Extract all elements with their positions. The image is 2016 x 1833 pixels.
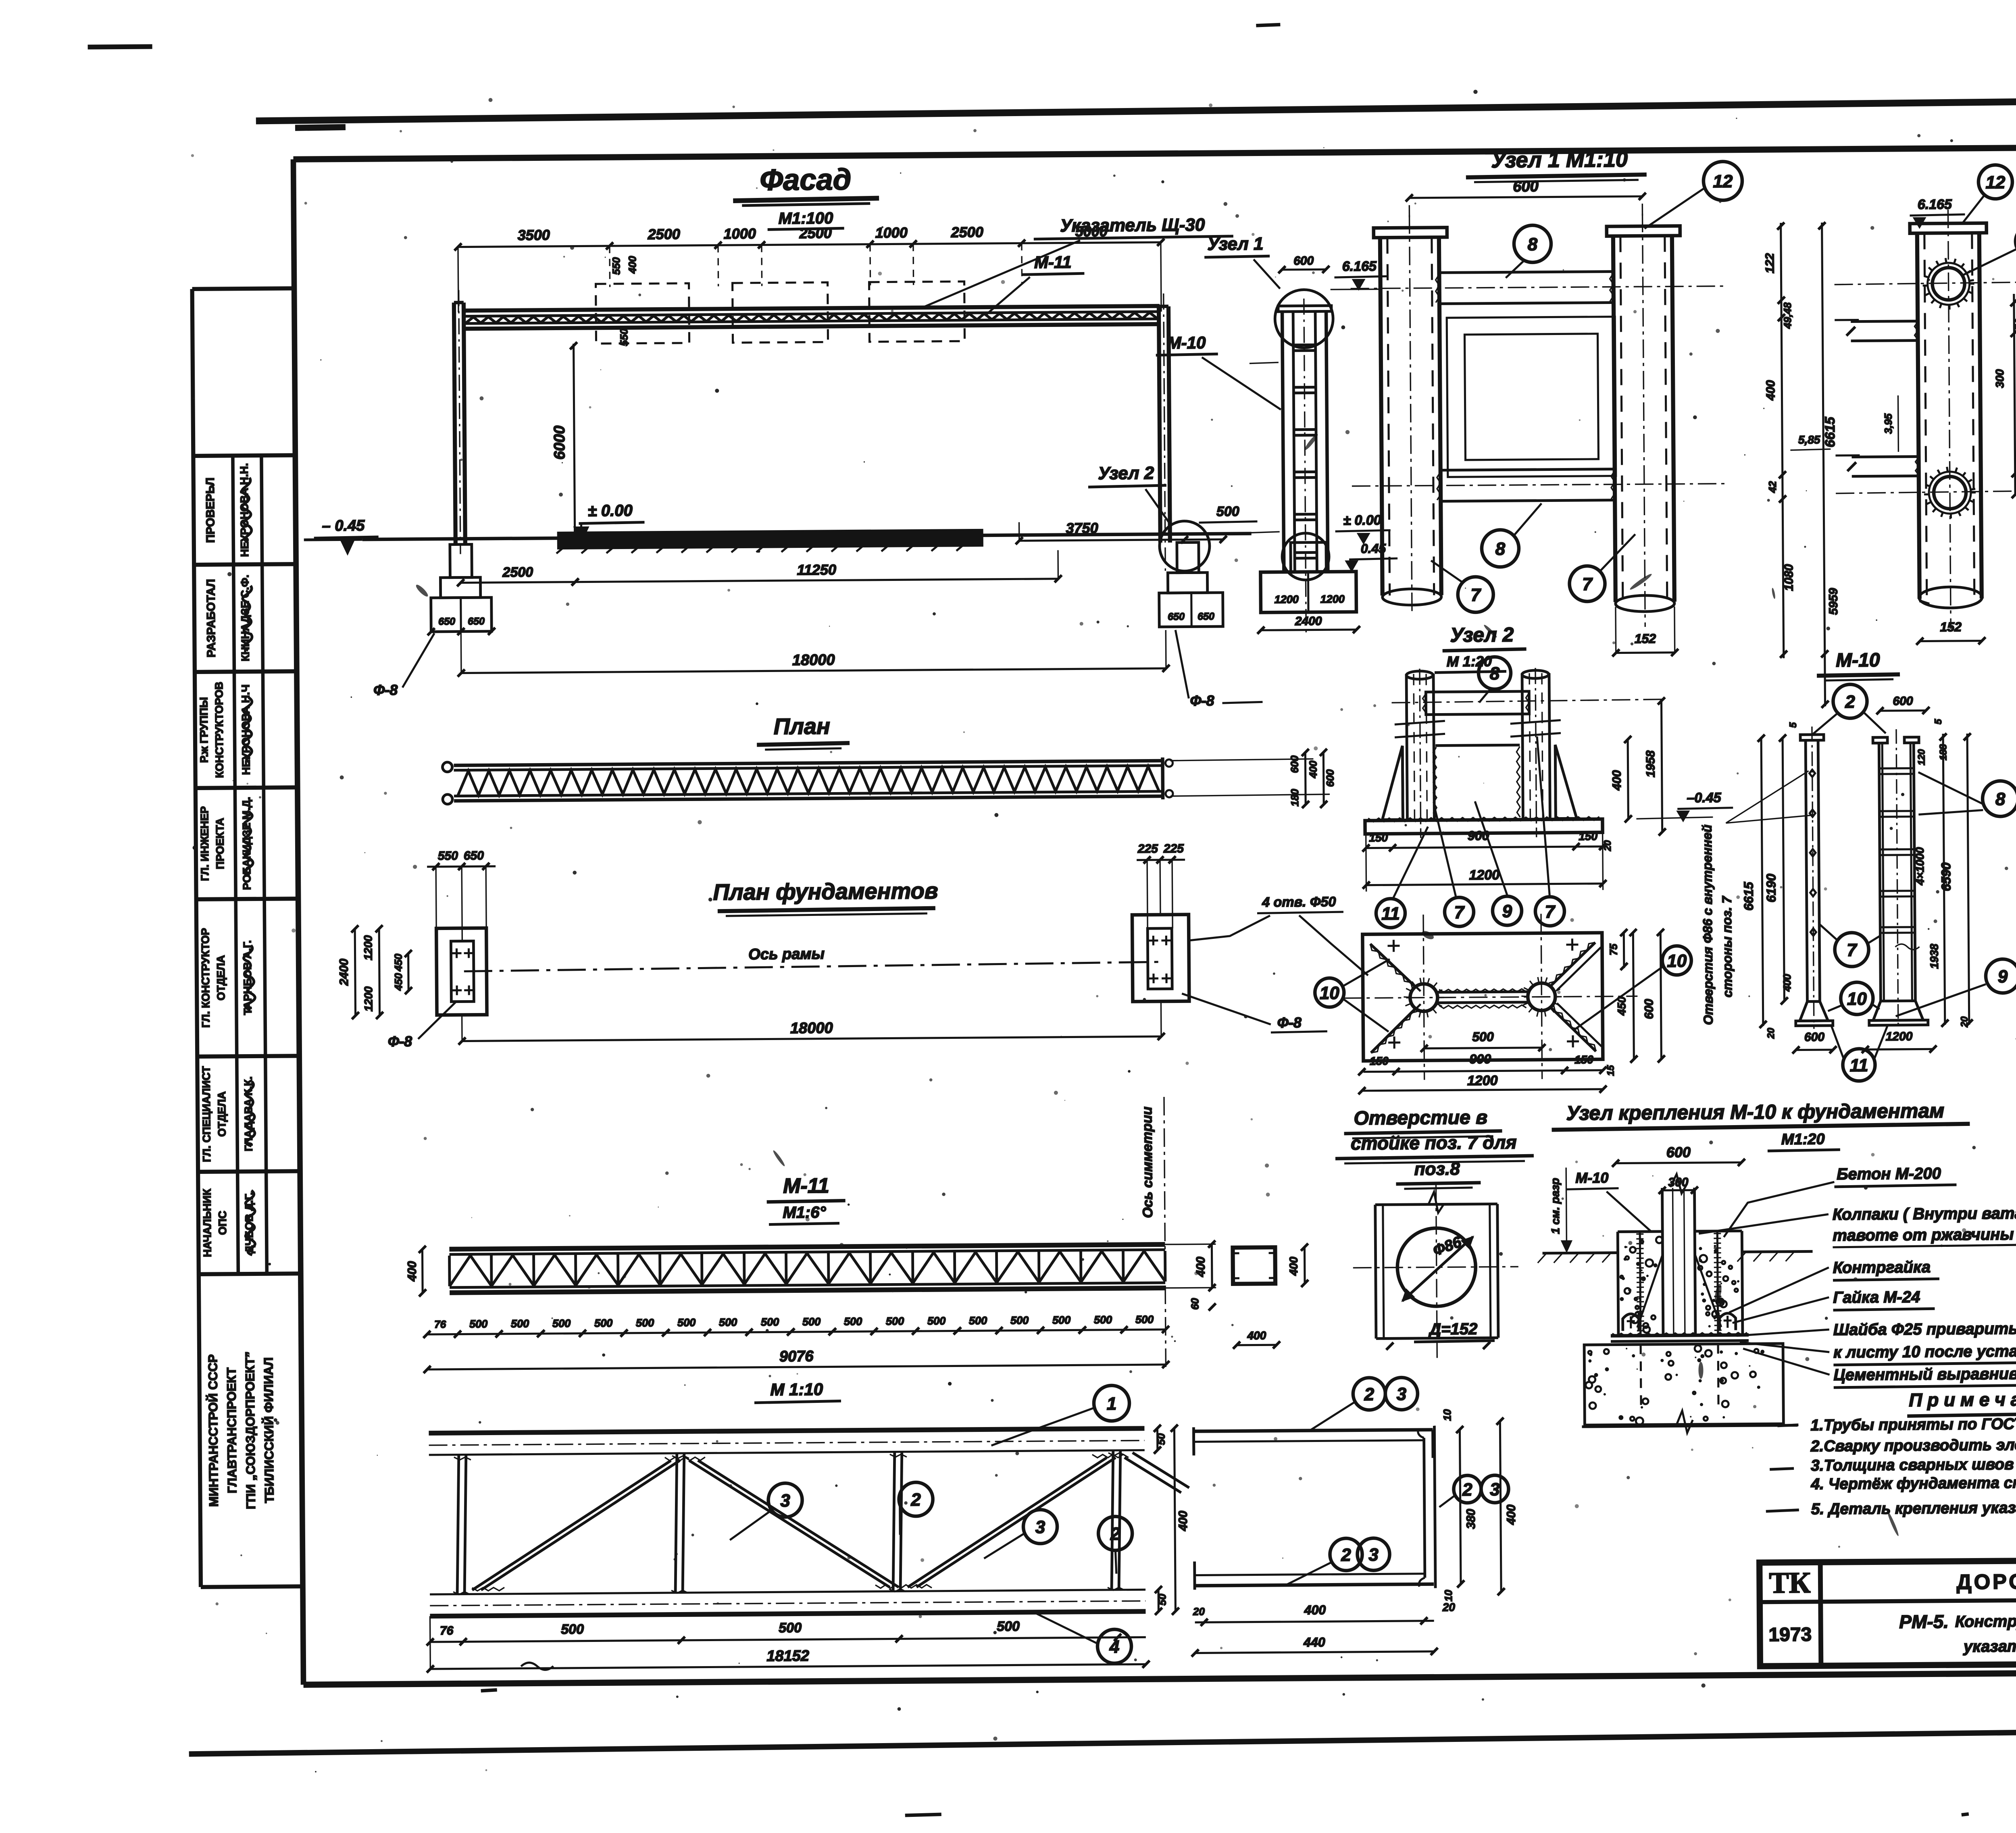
svg-text:10: 10 xyxy=(1847,989,1867,1009)
svg-text:Колпаки ( Внутри вата в: Колпаки ( Внутри вата в xyxy=(1833,1205,2016,1223)
svg-text:3: 3 xyxy=(1396,1384,1406,1404)
svg-text:400: 400 xyxy=(1505,1504,1518,1525)
svg-text:– 0.45: – 0.45 xyxy=(322,517,365,535)
svg-text:2400: 2400 xyxy=(1295,614,1322,628)
svg-text:500: 500 xyxy=(969,1315,987,1327)
svg-text:500: 500 xyxy=(594,1317,612,1329)
svg-text:4×1000: 4×1000 xyxy=(1914,847,1926,886)
svg-text:ГЛ. ИНЖЕНЕР: ГЛ. ИНЖЕНЕР xyxy=(198,806,211,881)
svg-text:1080: 1080 xyxy=(1782,564,1795,591)
svg-text:650: 650 xyxy=(1168,611,1185,622)
svg-text:120: 120 xyxy=(1916,749,1927,766)
svg-text:20: 20 xyxy=(1959,1016,1970,1028)
svg-text:2: 2 xyxy=(1364,1385,1374,1404)
svg-text:Узел 2: Узел 2 xyxy=(1450,623,1514,646)
svg-text:РМ-5.: РМ-5. xyxy=(1899,1611,1949,1632)
svg-text:8: 8 xyxy=(1528,235,1538,254)
svg-text:225: 225 xyxy=(1163,842,1185,855)
svg-text:2400: 2400 xyxy=(337,959,351,986)
svg-text:0.45: 0.45 xyxy=(1361,541,1387,556)
svg-text:1973: 1973 xyxy=(1768,1624,1812,1646)
svg-text:500: 500 xyxy=(1010,1314,1029,1326)
svg-text:М1:6°: М1:6° xyxy=(783,1204,826,1222)
svg-text:600: 600 xyxy=(1324,769,1336,787)
svg-text:7: 7 xyxy=(1470,585,1481,605)
svg-text:600: 600 xyxy=(1288,755,1300,773)
svg-text:380: 380 xyxy=(1464,1509,1478,1529)
svg-text:150: 150 xyxy=(1370,1055,1389,1067)
svg-text:Ось симметрии: Ось симметрии xyxy=(1139,1107,1156,1218)
svg-text:Ф-8: Ф-8 xyxy=(388,1033,412,1049)
svg-text:500: 500 xyxy=(886,1315,904,1327)
svg-text:5,85: 5,85 xyxy=(1798,433,1820,446)
svg-text:450: 450 xyxy=(392,973,404,991)
svg-text:ГЛ. СПЕЦИАЛИСТ: ГЛ. СПЕЦИАЛИСТ xyxy=(200,1066,213,1162)
svg-text:Цементный выравнивающий слой: Цементный выравнивающий слой xyxy=(1833,1364,2016,1384)
svg-text:180: 180 xyxy=(1289,789,1301,807)
svg-text:М-10: М-10 xyxy=(1167,333,1206,352)
svg-text:3: 3 xyxy=(1368,1545,1379,1565)
svg-text:20: 20 xyxy=(1193,1605,1205,1617)
svg-text:152: 152 xyxy=(1635,631,1656,646)
svg-text:500: 500 xyxy=(997,1619,1020,1634)
svg-text:ПРОЕКТА: ПРОЕКТА xyxy=(214,818,226,870)
svg-text:400: 400 xyxy=(1610,770,1624,791)
svg-text:ОТДЕЛА: ОТДЕЛА xyxy=(216,1091,228,1137)
svg-text:500: 500 xyxy=(677,1317,696,1329)
svg-text:60: 60 xyxy=(1189,1298,1201,1310)
svg-text:400: 400 xyxy=(1177,1511,1190,1531)
svg-text:Фасад: Фасад xyxy=(760,162,852,197)
svg-text:225: 225 xyxy=(1137,842,1159,855)
svg-text:ГЛ. КОНСТРУКТОР: ГЛ. КОНСТРУКТОР xyxy=(199,928,212,1028)
svg-text:8: 8 xyxy=(1490,664,1500,683)
svg-text:5: 5 xyxy=(1933,719,1944,724)
svg-text:500: 500 xyxy=(719,1316,737,1328)
svg-text:2: 2 xyxy=(1110,1524,1120,1544)
svg-text:650: 650 xyxy=(1198,611,1214,622)
svg-text:М-11: М-11 xyxy=(783,1174,829,1198)
svg-text:М1:20: М1:20 xyxy=(1781,1131,1825,1148)
svg-text:7: 7 xyxy=(1582,574,1593,594)
svg-text:ТБИЛИССКИЙ ФИЛИАЛ: ТБИЛИССКИЙ ФИЛИАЛ xyxy=(261,1357,276,1503)
svg-text:600: 600 xyxy=(1293,254,1314,267)
svg-text:20: 20 xyxy=(1766,1028,1776,1039)
svg-text:Р.ж ГРУППЫ: Р.ж ГРУППЫ xyxy=(198,697,210,763)
svg-text:ГПИ „СОЮЗДОРПРОЕКТ”: ГПИ „СОЮЗДОРПРОЕКТ” xyxy=(243,1351,258,1509)
svg-text:1200: 1200 xyxy=(1886,1030,1913,1043)
svg-text:Шайба Ф25 приварить: Шайба Ф25 приварить xyxy=(1833,1320,2016,1339)
svg-text:6.165: 6.165 xyxy=(1342,258,1377,274)
svg-text:18000: 18000 xyxy=(790,1019,833,1037)
svg-text:М-10: М-10 xyxy=(1836,649,1880,671)
svg-text:8: 8 xyxy=(1495,539,1506,559)
svg-text:400: 400 xyxy=(1287,1257,1300,1276)
svg-text:Гайка М-24: Гайка М-24 xyxy=(1833,1288,1920,1307)
svg-text:Ф-8: Ф-8 xyxy=(373,682,398,698)
svg-text:500: 500 xyxy=(636,1317,654,1329)
svg-text:Узел 2: Узел 2 xyxy=(1098,463,1154,483)
svg-text:2500: 2500 xyxy=(799,225,832,241)
svg-text:План: План xyxy=(774,713,831,739)
svg-text:500: 500 xyxy=(927,1315,946,1327)
svg-text:18152: 18152 xyxy=(766,1648,809,1665)
svg-text:11250: 11250 xyxy=(797,561,836,578)
svg-text:1: 1 xyxy=(1107,1394,1117,1414)
svg-text:76: 76 xyxy=(434,1318,446,1330)
svg-text:Узел 1 М1:10: Узел 1 М1:10 xyxy=(1491,147,1628,172)
svg-text:10: 10 xyxy=(1320,983,1340,1003)
svg-text:550: 550 xyxy=(618,329,630,346)
svg-text:П р и м е ч а н и я -: П р и м е ч а н и я - xyxy=(1909,1388,2016,1411)
svg-text:7: 7 xyxy=(1545,902,1556,922)
svg-text:500: 500 xyxy=(1216,504,1239,519)
svg-text:1200: 1200 xyxy=(1320,593,1345,605)
svg-text:400: 400 xyxy=(1304,1602,1326,1617)
svg-text:стойке поз. 7 для: стойке поз. 7 для xyxy=(1351,1132,1517,1154)
svg-text:2: 2 xyxy=(1462,1480,1472,1500)
svg-text:400: 400 xyxy=(1781,974,1793,992)
svg-text:400: 400 xyxy=(406,1261,419,1282)
svg-text:–0.45: –0.45 xyxy=(1687,790,1721,806)
svg-text:Отверстия Ф86 с внутренней: Отверстия Ф86 с внутренней xyxy=(1700,824,1716,1025)
svg-text:1000: 1000 xyxy=(875,224,908,241)
svg-text:500: 500 xyxy=(844,1315,862,1327)
svg-text:1200: 1200 xyxy=(362,935,374,960)
svg-text:3.Толщина сварных швов прин: 3.Толщина сварных швов принята hш -5мм xyxy=(1811,1455,2016,1475)
svg-text:5. Деталь крепления указател: 5. Деталь крепления указателей к М-11 см… xyxy=(1811,1498,2016,1518)
svg-text:5959: 5959 xyxy=(1827,588,1840,615)
svg-text:400: 400 xyxy=(1247,1329,1266,1342)
svg-text:4 отв. Ф50: 4 отв. Ф50 xyxy=(1262,894,1336,910)
svg-text:400: 400 xyxy=(1307,760,1319,778)
svg-text:500: 500 xyxy=(469,1318,487,1330)
svg-text:1.Трубы приняты по ГОСТ 87: 1.Трубы приняты по ГОСТ 8732 -70 . xyxy=(1810,1415,2016,1434)
svg-text:500: 500 xyxy=(561,1622,584,1637)
svg-text:1958: 1958 xyxy=(1644,750,1657,777)
svg-text:3: 3 xyxy=(1035,1517,1045,1537)
svg-text:Конструкция рамы для нав: Конструкция рамы для навески xyxy=(1955,1611,2016,1631)
svg-text:188: 188 xyxy=(1938,744,1949,760)
svg-text:6.165: 6.165 xyxy=(1918,197,1952,212)
svg-text:9076: 9076 xyxy=(779,1348,814,1365)
svg-text:20: 20 xyxy=(1442,1601,1456,1613)
svg-text:150: 150 xyxy=(1579,830,1597,843)
svg-text:Ось рамы: Ось рамы xyxy=(748,946,825,963)
svg-text:3500: 3500 xyxy=(518,227,550,243)
svg-text:КОНСТРУКТОРОВ: КОНСТРУКТОРОВ xyxy=(213,682,226,778)
svg-text:500: 500 xyxy=(761,1316,779,1328)
svg-text:М-10: М-10 xyxy=(1575,1169,1608,1186)
svg-text:ДОРОЖНЫЕ ЗНАКИ: ДОРОЖНЫЕ ЗНАКИ xyxy=(1956,1569,2016,1594)
svg-text:ОПС: ОПС xyxy=(217,1211,229,1235)
svg-text:к листу 10 после установки М-1: к листу 10 после установки М-10 xyxy=(1833,1342,2016,1361)
svg-text:600: 600 xyxy=(1893,695,1913,708)
svg-text:Узел крепления М-10 к фунда: Узел крепления М-10 к фундаментам xyxy=(1566,1099,1944,1124)
svg-text:6590: 6590 xyxy=(1939,862,1953,891)
svg-text:5: 5 xyxy=(1788,722,1799,728)
svg-text:500: 500 xyxy=(1094,1314,1112,1326)
svg-text:152: 152 xyxy=(1940,620,1962,634)
svg-text:1200: 1200 xyxy=(362,986,375,1011)
svg-text:18000: 18000 xyxy=(792,651,835,669)
svg-text:15: 15 xyxy=(1605,1065,1616,1076)
svg-text:6615: 6615 xyxy=(1822,416,1838,447)
svg-text:± 0.00: ± 0.00 xyxy=(1343,512,1381,528)
svg-text:2500: 2500 xyxy=(648,226,680,243)
svg-text:2: 2 xyxy=(1845,692,1855,712)
svg-text:650: 650 xyxy=(438,616,455,627)
svg-text:6615: 6615 xyxy=(1741,881,1756,911)
svg-text:50: 50 xyxy=(2013,318,2016,331)
svg-text:450: 450 xyxy=(1615,997,1628,1016)
svg-text:2: 2 xyxy=(1341,1545,1351,1565)
svg-text:6190: 6190 xyxy=(1764,874,1778,903)
svg-text:8: 8 xyxy=(1995,789,2006,809)
svg-text:550: 550 xyxy=(438,849,458,863)
svg-text:1000: 1000 xyxy=(724,225,756,242)
svg-text:600: 600 xyxy=(1804,1030,1825,1044)
svg-text:Контргайка: Контргайка xyxy=(1833,1258,1931,1277)
svg-text:тавоте от ржавчины ): тавоте от ржавчины ) xyxy=(1833,1225,2016,1244)
svg-text:49,48: 49,48 xyxy=(1781,302,1793,329)
svg-text:2500: 2500 xyxy=(951,224,983,241)
svg-text:1200: 1200 xyxy=(1275,593,1299,605)
svg-text:11: 11 xyxy=(1849,1055,1868,1075)
svg-text:Бетон М-200: Бетон М-200 xyxy=(1837,1165,1941,1183)
svg-text:12: 12 xyxy=(1713,172,1733,191)
svg-text:650: 650 xyxy=(464,849,484,862)
svg-text:9: 9 xyxy=(1502,901,1512,921)
svg-text:МИНТРАНССТРОЙ СССР: МИНТРАНССТРОЙ СССР xyxy=(205,1354,221,1506)
svg-text:М 1:10: М 1:10 xyxy=(770,1380,823,1399)
svg-text:М-11: М-11 xyxy=(1034,252,1072,272)
svg-text:550: 550 xyxy=(610,257,622,275)
svg-text:5000: 5000 xyxy=(1075,223,1108,240)
svg-text:2.Сварку производить электро: 2.Сварку производить электродами Э-42 ГО… xyxy=(1810,1435,2016,1455)
svg-text:2: 2 xyxy=(910,1490,921,1510)
svg-text:400: 400 xyxy=(1764,380,1777,401)
svg-text:42: 42 xyxy=(1766,481,1779,493)
svg-text:300: 300 xyxy=(1993,369,2006,388)
svg-text:2500: 2500 xyxy=(502,564,533,580)
svg-text:4. Чертёж фундамента см. лис: 4. Чертёж фундамента см. лист № 71 xyxy=(1810,1473,2016,1493)
svg-text:600: 600 xyxy=(1513,178,1539,195)
svg-text:7: 7 xyxy=(1847,940,1858,960)
svg-text:75: 75 xyxy=(1607,943,1619,955)
svg-text:500: 500 xyxy=(802,1316,821,1328)
svg-text:ПРОВЕРЬЛ: ПРОВЕРЬЛ xyxy=(204,478,217,543)
svg-text:ОТДЕЛА: ОТДЕЛА xyxy=(215,955,227,1001)
svg-text:1200: 1200 xyxy=(1469,867,1500,883)
svg-text:650: 650 xyxy=(468,616,485,627)
svg-text:ГЛАВТРАНСПРОЕКТ: ГЛАВТРАНСПРОЕКТ xyxy=(224,1367,239,1493)
svg-text:РАЗРАБОТАЛ: РАЗРАБОТАЛ xyxy=(204,579,218,657)
svg-text:500: 500 xyxy=(511,1317,529,1329)
svg-text:1 см. разр: 1 см. разр xyxy=(1549,1178,1562,1234)
svg-text:76: 76 xyxy=(440,1624,454,1637)
svg-text:10: 10 xyxy=(1442,1590,1454,1602)
svg-text:стороны поз. 7: стороны поз. 7 xyxy=(1720,895,1735,997)
svg-text:1938: 1938 xyxy=(1928,944,1940,969)
svg-text:122: 122 xyxy=(1763,253,1776,274)
svg-text:Ф-8: Ф-8 xyxy=(1190,692,1214,709)
svg-text:Узел 1: Узел 1 xyxy=(1207,234,1263,254)
svg-text:3,95: 3,95 xyxy=(1882,413,1894,434)
svg-text:150: 150 xyxy=(1369,831,1388,844)
svg-text:500: 500 xyxy=(779,1620,802,1635)
svg-text:поз.8: поз.8 xyxy=(1414,1159,1460,1179)
svg-text:3: 3 xyxy=(780,1491,790,1511)
svg-text:11: 11 xyxy=(1381,904,1400,924)
svg-text:Д=152: Д=152 xyxy=(1428,1320,1477,1338)
svg-text:Отверстие в: Отверстие в xyxy=(1354,1107,1487,1129)
svg-text:500: 500 xyxy=(552,1317,571,1329)
svg-text:50: 50 xyxy=(1155,1433,1167,1445)
svg-text:450: 450 xyxy=(392,953,404,972)
svg-text:10: 10 xyxy=(1667,951,1687,971)
svg-text:± 0.00: ± 0.00 xyxy=(588,502,633,520)
svg-text:500: 500 xyxy=(1472,1030,1494,1044)
svg-text:Ф-8: Ф-8 xyxy=(1277,1014,1302,1031)
svg-text:3: 3 xyxy=(1490,1479,1500,1499)
svg-text:указательных знаков .: указательных знаков . xyxy=(1963,1637,2016,1656)
svg-text:9: 9 xyxy=(1998,967,2008,986)
svg-text:600: 600 xyxy=(1666,1144,1691,1160)
svg-text:500: 500 xyxy=(1135,1313,1154,1325)
svg-text:6000: 6000 xyxy=(551,425,569,460)
svg-text:600: 600 xyxy=(1642,999,1656,1019)
svg-text:НАЧАЛЬНИК: НАЧАЛЬНИК xyxy=(201,1188,213,1257)
svg-text:10: 10 xyxy=(1441,1409,1453,1421)
svg-text:150: 150 xyxy=(1574,1053,1593,1066)
svg-text:20: 20 xyxy=(1602,840,1613,852)
svg-text:План фундаментов: План фундаментов xyxy=(713,878,938,905)
svg-text:400: 400 xyxy=(626,256,638,274)
svg-text:7: 7 xyxy=(1454,903,1465,922)
svg-text:12: 12 xyxy=(1985,173,2006,192)
svg-text:440: 440 xyxy=(1303,1635,1325,1649)
svg-text:1200: 1200 xyxy=(1467,1073,1498,1089)
svg-text:ТК: ТК xyxy=(1769,1566,1811,1600)
svg-text:900: 900 xyxy=(1470,1052,1491,1066)
svg-text:500: 500 xyxy=(1052,1314,1070,1326)
svg-text:3750: 3750 xyxy=(1066,520,1098,537)
svg-text:50: 50 xyxy=(1156,1594,1168,1606)
